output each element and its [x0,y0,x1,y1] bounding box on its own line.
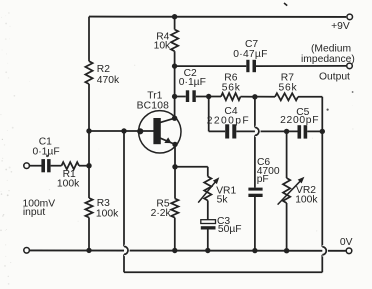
svg-text:Output: Output [319,71,350,82]
svg-text:100k: 100k [57,178,80,189]
svg-text:pF: pF [257,174,269,185]
svg-text:BC108: BC108 [137,101,170,112]
svg-text:0·1µF: 0·1µF [179,77,206,88]
svg-text:input: input [23,207,45,218]
svg-text:10k: 10k [154,41,171,52]
svg-text:470k: 470k [97,75,120,86]
svg-text:0·47µF: 0·47µF [233,49,267,60]
svg-text:R3: R3 [97,198,110,209]
svg-text:56k: 56k [222,82,241,93]
svg-text:5k: 5k [217,194,229,205]
svg-text:R2: R2 [97,64,110,75]
svg-text:impedance): impedance) [301,54,355,65]
svg-text:100k: 100k [96,208,119,219]
svg-text:0·1µF: 0·1µF [33,146,60,157]
svg-text:56k: 56k [279,82,298,93]
svg-text:+9V: +9V [331,21,350,32]
svg-text:(Medium: (Medium [311,43,351,54]
svg-text:100k: 100k [295,194,318,205]
svg-text:0V: 0V [340,237,353,248]
svg-text:2·2k: 2·2k [151,208,172,219]
svg-text:2200pF: 2200pF [280,115,319,126]
svg-text:2200pF: 2200pF [207,115,250,126]
svg-text:50µF: 50µF [218,224,242,235]
